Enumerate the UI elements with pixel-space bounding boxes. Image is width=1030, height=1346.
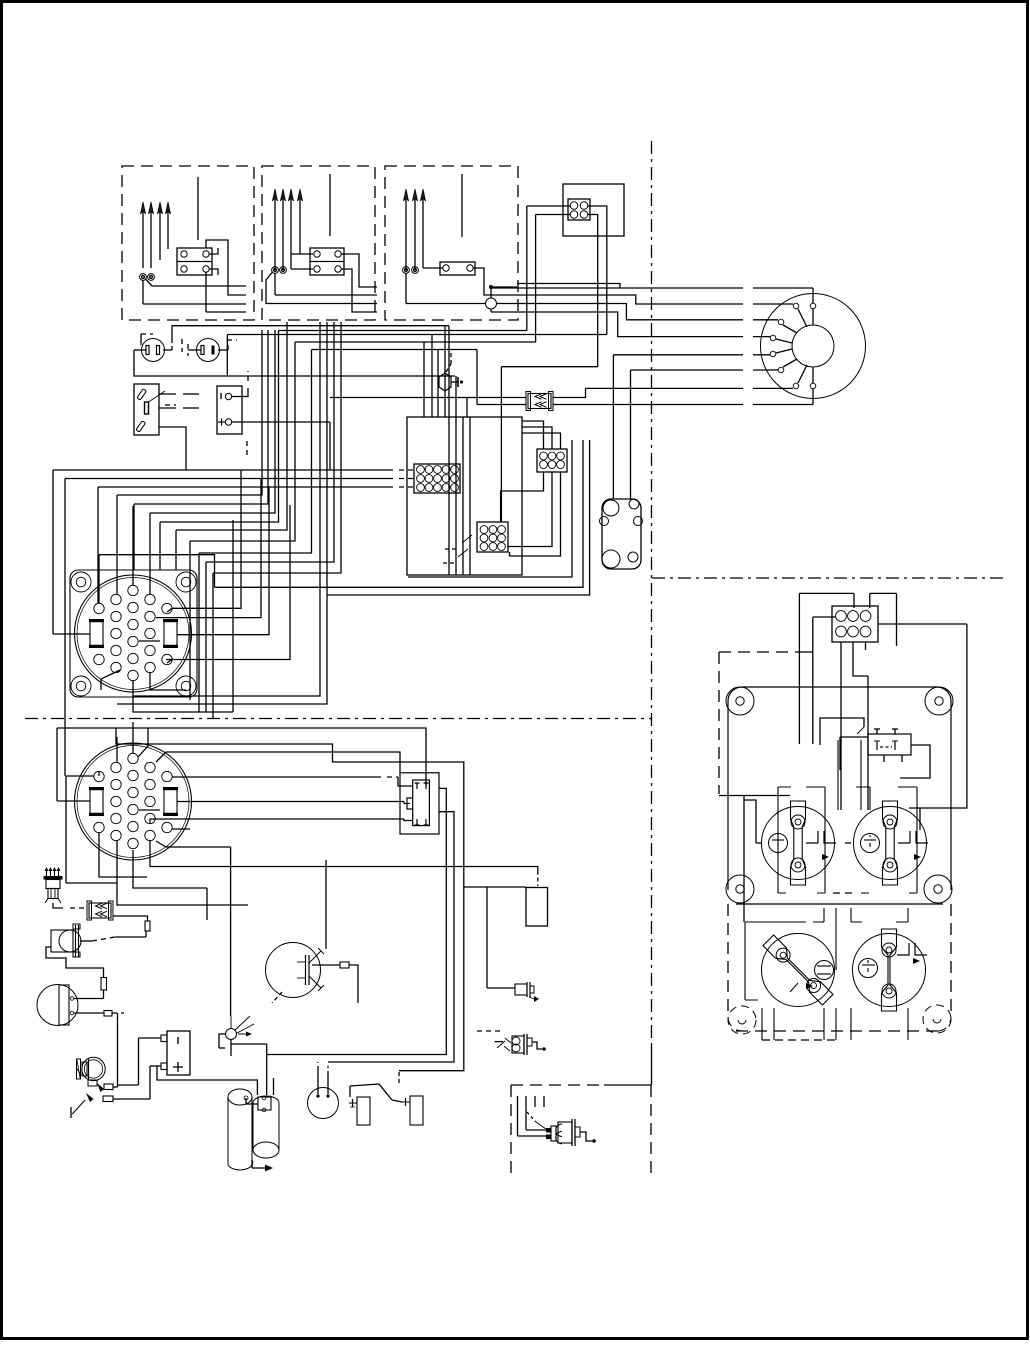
receptacle R4 channels <box>851 908 908 922</box>
ignition module CD1 dashed box <box>122 166 254 320</box>
wire rotor 405 from fuse <box>553 404 743 406</box>
receptacle R1 30A <box>762 807 835 880</box>
wire J7 bottom <box>501 472 544 522</box>
wire J7 top <box>522 421 544 449</box>
panel screws upper <box>726 687 754 715</box>
wire harness left verticals <box>52 470 54 634</box>
capacitor C2 <box>253 1096 279 1103</box>
spark plugs cylinder 1-2 <box>140 202 145 214</box>
fuel solenoid <box>51 930 73 952</box>
low oil shutdown dashed box <box>511 1084 604 1086</box>
engine start switch SW1 <box>134 384 159 435</box>
starter solenoid K1 <box>602 499 641 569</box>
connector J5 15-pin <box>414 464 460 493</box>
wire sensor feed <box>230 847 232 1016</box>
wire rotor 354 from solenoid <box>613 354 743 356</box>
CP1 corner screws <box>71 572 91 592</box>
receptacle R2 channels <box>856 787 917 893</box>
ignition coil T3 <box>440 262 475 275</box>
kill lead 2 <box>329 174 331 236</box>
partition line vertical (engine/generator) <box>651 141 653 1044</box>
wire P4 lead drop A <box>526 206 528 331</box>
wire regulator right <box>349 965 358 1003</box>
wire panel feeds <box>719 795 790 797</box>
wire plugs area <box>141 333 153 335</box>
CP2 wires top <box>116 737 118 762</box>
hour meter gauge <box>37 985 78 1026</box>
wire resistor branch <box>464 886 526 888</box>
fuse F2 <box>89 903 111 918</box>
wire coil2 outputs <box>266 273 377 304</box>
battery BAT1 <box>167 1031 190 1075</box>
wire link E <box>501 366 597 368</box>
wire bottom left runs <box>219 1047 225 1049</box>
ignition module CD2 dashed box <box>262 166 375 320</box>
wire into P4 left <box>527 205 570 207</box>
wire regulator module outputs <box>267 788 447 1054</box>
receptacle R1 channels <box>778 740 861 893</box>
wire link A <box>279 330 527 332</box>
wire rotor 370 from solenoid <box>631 369 744 371</box>
wire trunk into control box top <box>423 342 425 417</box>
idle control solenoid <box>82 1057 105 1080</box>
DC charge plug <box>46 870 48 877</box>
generator panel plate lower dashed <box>736 1030 943 1032</box>
oil pressure switch S4 <box>512 1036 524 1053</box>
fuse F1 <box>528 394 551 409</box>
wire harness staircase to connector <box>117 330 262 495</box>
wire link kill <box>172 325 449 327</box>
wire J8 bottom <box>840 642 842 790</box>
ignition coil T2 <box>310 248 344 275</box>
generator panel plate upper <box>728 687 951 904</box>
CP2 wires bottom <box>99 832 147 877</box>
solenoid leads <box>612 355 614 499</box>
small fuse F3 <box>145 921 150 931</box>
oil pressure lamp E1 <box>439 373 451 391</box>
partition line horizontal right <box>652 577 1003 579</box>
wire capacitor leads up <box>266 1044 268 1095</box>
small fuse F6 <box>103 1096 113 1102</box>
wire J8 right <box>878 623 967 625</box>
spark plugs cylinder 3-4 <box>272 189 277 201</box>
panel screws middle <box>726 875 754 903</box>
wire sensor <box>219 1034 225 1048</box>
capacitor C1 <box>228 1089 252 1105</box>
wire sender down <box>46 947 104 978</box>
small fuse F5 <box>104 1084 113 1090</box>
wire out of P4 right <box>588 206 607 335</box>
connector J6 9-pin <box>477 522 508 552</box>
resistor R5 <box>537 878 539 887</box>
connector CP1 24-pin <box>75 575 192 692</box>
CP2 box outline <box>57 728 426 786</box>
wire fuse to rotor riser <box>553 388 586 397</box>
voltage regulator <box>266 943 321 998</box>
wire S2 <box>350 1084 392 1100</box>
boundary dashes to panel <box>719 651 797 653</box>
control board box <box>407 417 522 575</box>
wire J8 top <box>799 592 854 594</box>
wire charge plug <box>53 903 63 908</box>
plug terminals 1 <box>140 274 147 281</box>
switch leads <box>159 393 176 395</box>
wire into receptacles <box>756 842 762 844</box>
plug terminals 2 <box>272 267 279 274</box>
capacitor terminal block <box>258 1097 271 1110</box>
plug terminals 3 <box>403 267 410 274</box>
oil pressure sender <box>551 1126 556 1141</box>
voltage regulator module VR1 <box>400 773 439 834</box>
rectifier leads <box>232 388 249 397</box>
CP2 wires right <box>177 801 404 803</box>
ignition coil T1 <box>177 248 212 275</box>
wire battery <box>139 1037 162 1039</box>
wire coil1 outputs <box>146 280 246 287</box>
CP1 wires top <box>98 555 100 603</box>
small fuse F7 <box>340 962 349 968</box>
wire coil3 outputs <box>473 268 517 295</box>
kill lead 1 <box>197 177 199 240</box>
CP2 wires left <box>57 800 90 802</box>
connector CP2 24-pin <box>75 743 192 860</box>
wire J5 rows to far left <box>53 469 393 471</box>
receptacle 120/240V twist-lock R3 <box>762 934 835 1007</box>
rotor slip-ring assembly <box>761 294 866 399</box>
wire CP1 pin risers right <box>99 555 215 588</box>
receptacle R3 channels <box>745 908 836 1000</box>
panel screws lower <box>728 1006 756 1034</box>
wire P4 lead drop C <box>535 215 537 343</box>
oil level switch S3 <box>410 1096 423 1125</box>
kill lead 3 <box>461 174 463 237</box>
wire regulator bottom dashes <box>272 992 282 1003</box>
wire bus stator to rotor <box>517 284 620 289</box>
rectifier module D1 <box>217 386 242 434</box>
rotor terminals <box>793 303 799 309</box>
exciter connector box <box>563 184 624 236</box>
panel lower wire channels <box>762 1008 908 1040</box>
panel boundary dashes left <box>718 652 720 794</box>
wire S3 <box>398 1071 400 1083</box>
ignition module CD3 dashed box <box>385 166 518 320</box>
wire harness long drops <box>133 322 320 696</box>
small fuse F4 <box>104 1011 112 1017</box>
wire breaker <box>857 727 864 734</box>
rotor radial leads <box>798 309 807 327</box>
wire inside shutdown box <box>517 1096 519 1136</box>
wire idle solenoid <box>97 1083 104 1092</box>
connector P4 4-pin <box>568 199 590 220</box>
start button <box>308 1088 339 1119</box>
diode junction <box>486 298 497 309</box>
wire link D <box>312 349 478 351</box>
wire battery feed <box>329 422 331 470</box>
low-oil sensor <box>226 1029 237 1040</box>
connector CP1 mounting plate <box>70 570 197 697</box>
oil level switch S2 <box>357 1097 370 1125</box>
wire control box lower brackets <box>215 440 584 587</box>
small fuse F3b <box>101 978 107 991</box>
accessory plug J2 <box>197 339 220 362</box>
dashed actuator marks <box>462 535 472 543</box>
temp switch S5 <box>515 984 527 995</box>
accessory plug J1 <box>142 339 165 362</box>
receptacle channel hooks bottom <box>778 892 917 894</box>
wire link B <box>227 334 607 336</box>
connector J7 6-pin <box>537 449 567 472</box>
wire hour meter <box>74 998 104 1000</box>
wire rotor 388 from fuse <box>586 387 744 389</box>
wire S4 <box>495 1041 503 1043</box>
receptacle 240V twist-lock R4 <box>853 934 926 1007</box>
wire fuel solenoid <box>80 940 92 942</box>
spark plugs cylinder 5-6 <box>403 189 408 201</box>
CP1 wires sides <box>53 633 90 635</box>
receptacle R2 30A <box>854 807 927 880</box>
partition line horizontal left <box>25 718 651 720</box>
CP1 wires bottom <box>133 680 233 712</box>
generator connector block J8 <box>832 606 878 642</box>
wire link C <box>295 341 536 343</box>
wire trunk center <box>448 326 450 575</box>
circuit breaker CB1 <box>868 734 911 755</box>
discharge arrow <box>251 1160 253 1168</box>
wire ground drop <box>86 1093 94 1102</box>
wire regulator top <box>325 860 327 949</box>
wire link B drop <box>226 335 228 377</box>
